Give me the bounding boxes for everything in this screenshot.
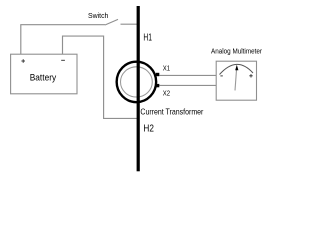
svg-text:H2: H2 — [143, 124, 154, 135]
svg-text:X1: X1 — [163, 66, 170, 73]
svg-text:Switch: Switch — [88, 11, 108, 20]
svg-text:H1: H1 — [143, 33, 152, 44]
svg-text:X2: X2 — [163, 91, 170, 98]
svg-text:Battery: Battery — [30, 73, 57, 83]
svg-text:Current Transformer: Current Transformer — [140, 107, 203, 117]
svg-text:Analog Multimeter: Analog Multimeter — [211, 46, 262, 55]
